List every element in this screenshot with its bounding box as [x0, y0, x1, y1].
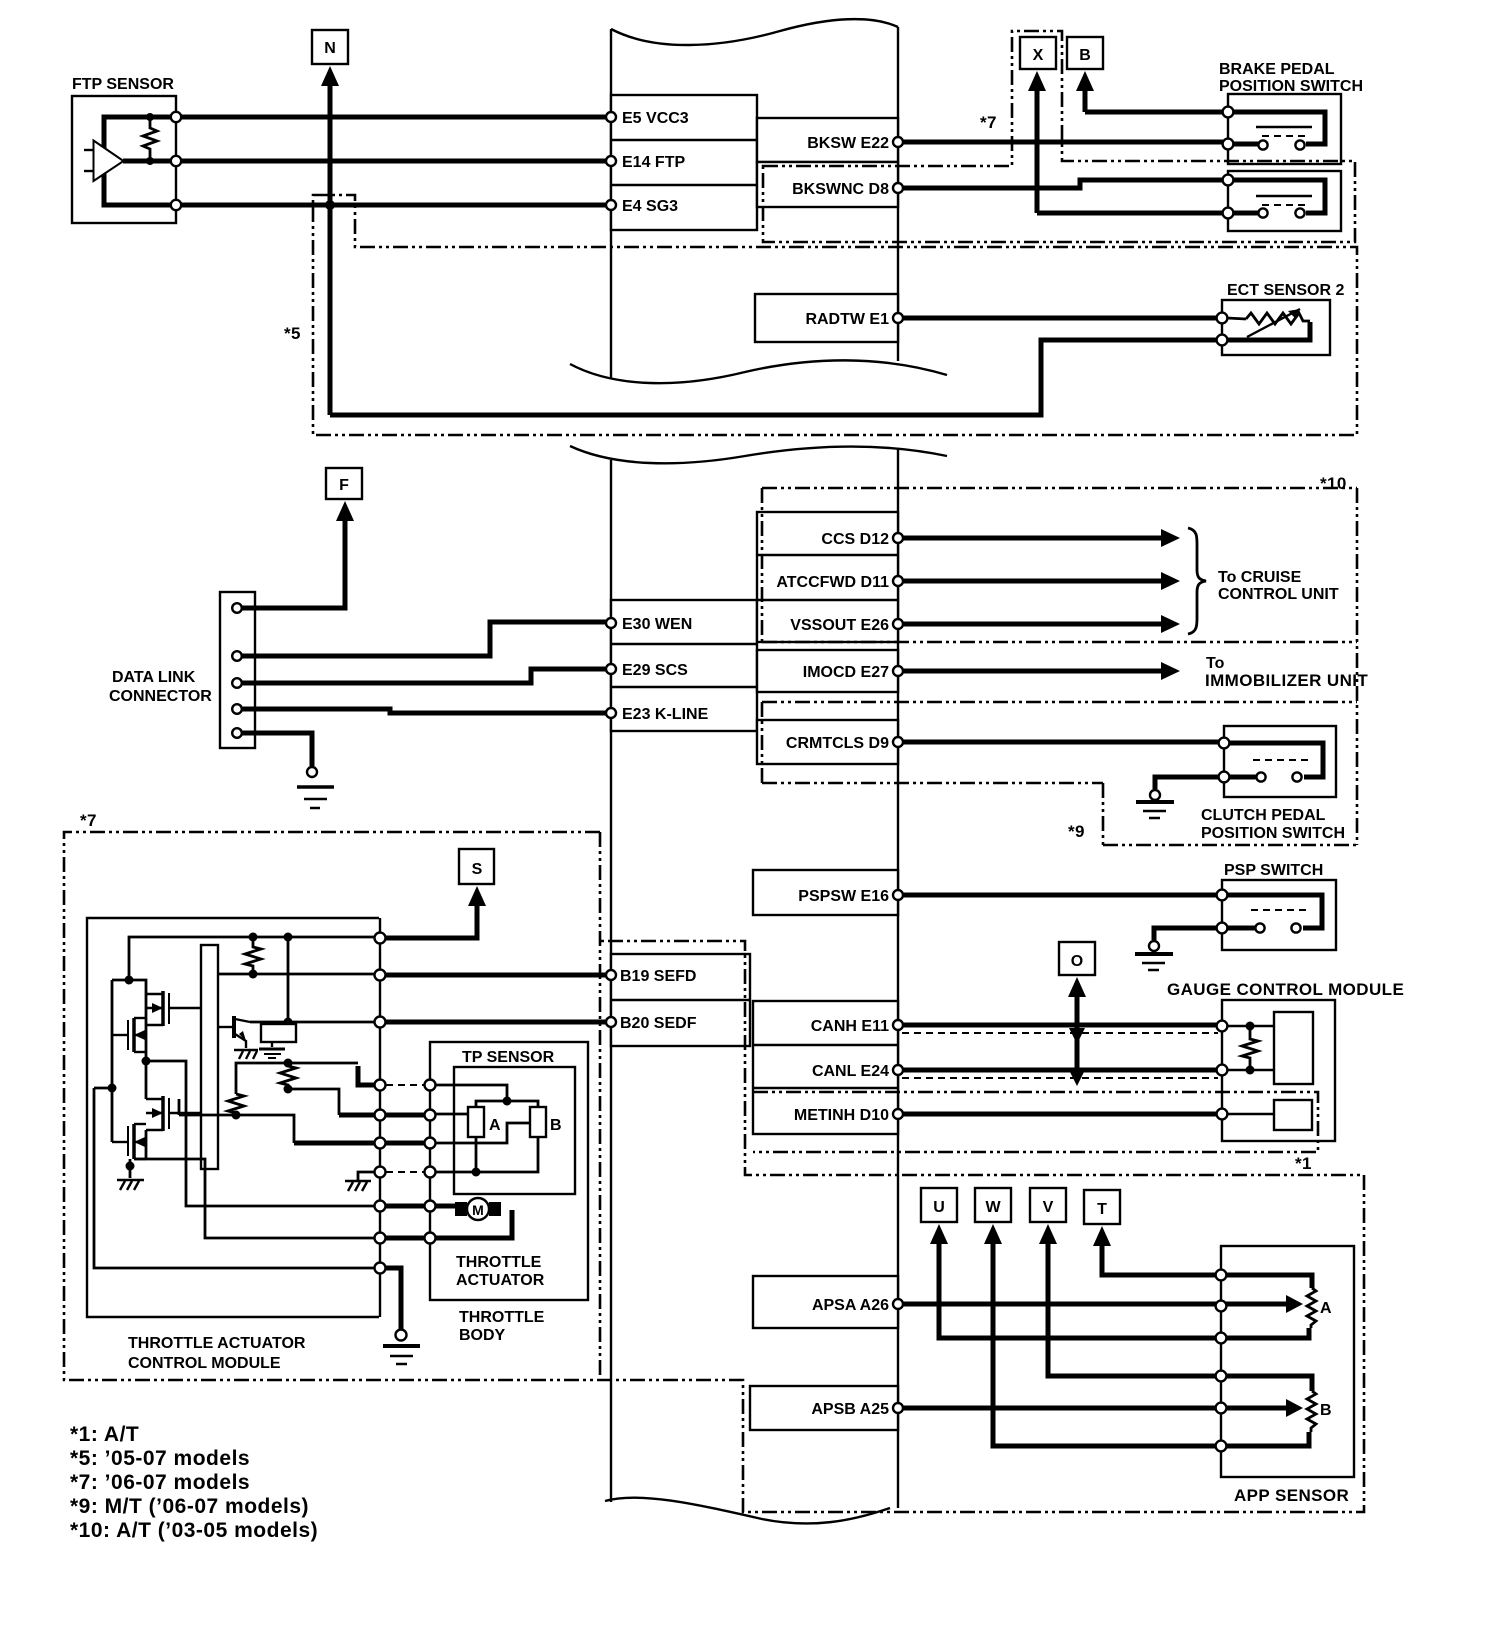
svg-text:To: To [1206, 655, 1225, 672]
svg-text:*9: *9 [1068, 822, 1085, 841]
svg-text:B19 SEFD: B19 SEFD [620, 968, 696, 985]
svg-text:F: F [339, 477, 349, 494]
svg-text:*5: ’05-07 models: *5: ’05-07 models [70, 1447, 250, 1470]
svg-text:*7: *7 [80, 811, 97, 830]
svg-text:*10: *10 [1320, 474, 1347, 493]
svg-text:BRAKE PEDAL: BRAKE PEDAL [1219, 61, 1335, 78]
svg-text:IMMOBILIZER UNIT: IMMOBILIZER UNIT [1205, 671, 1368, 690]
svg-text:CLUTCH PEDAL: CLUTCH PEDAL [1201, 807, 1326, 824]
svg-text:N: N [324, 40, 336, 57]
svg-text:*5: *5 [284, 324, 301, 343]
svg-text:M: M [472, 1202, 484, 1218]
svg-text:U: U [933, 1199, 945, 1216]
svg-text:B: B [550, 1117, 562, 1134]
svg-text:ACTUATOR: ACTUATOR [456, 1272, 545, 1289]
svg-text:PSPSW E16: PSPSW E16 [798, 888, 889, 905]
svg-text:APP SENSOR: APP SENSOR [1234, 1486, 1349, 1505]
svg-text:BKSW E22: BKSW E22 [807, 135, 889, 152]
svg-text:*7: *7 [980, 113, 997, 132]
svg-text:CONTROL MODULE: CONTROL MODULE [128, 1355, 281, 1372]
svg-text:THROTTLE: THROTTLE [459, 1309, 545, 1326]
svg-text:*1: *1 [1295, 1154, 1312, 1173]
svg-text:THROTTLE ACTUATOR: THROTTLE ACTUATOR [128, 1335, 306, 1352]
svg-text:B: B [1079, 47, 1091, 64]
svg-text:CONNECTOR: CONNECTOR [109, 688, 212, 705]
svg-text:V: V [1043, 1199, 1054, 1216]
svg-text:ECT SENSOR 2: ECT SENSOR 2 [1227, 282, 1344, 299]
svg-text:*7: ’06-07 models: *7: ’06-07 models [70, 1471, 250, 1494]
svg-text:POSITION SWITCH: POSITION SWITCH [1219, 78, 1363, 95]
svg-text:E30 WEN: E30 WEN [622, 616, 692, 633]
svg-text:E4 SG3: E4 SG3 [622, 198, 678, 215]
svg-text:O: O [1071, 953, 1083, 970]
svg-text:X: X [1033, 47, 1044, 64]
svg-text:CANH E11: CANH E11 [811, 1018, 889, 1035]
svg-text:TP SENSOR: TP SENSOR [462, 1049, 555, 1066]
svg-text:*10: A/T (’03-05 models): *10: A/T (’03-05 models) [70, 1519, 318, 1542]
svg-text:A: A [489, 1117, 501, 1134]
svg-text:THROTTLE: THROTTLE [456, 1254, 542, 1271]
svg-text:PSP SWITCH: PSP SWITCH [1224, 862, 1323, 879]
svg-text:CONTROL UNIT: CONTROL UNIT [1218, 586, 1339, 603]
svg-text:*1: A/T: *1: A/T [70, 1423, 139, 1446]
svg-text:VSSOUT E26: VSSOUT E26 [790, 617, 889, 634]
svg-text:IMOCD E27: IMOCD E27 [803, 664, 889, 681]
svg-text:BKSWNC D8: BKSWNC D8 [792, 181, 889, 198]
svg-text:ATCCFWD D11: ATCCFWD D11 [776, 574, 889, 591]
svg-text:T: T [1097, 1201, 1107, 1218]
svg-text:E5 VCC3: E5 VCC3 [622, 110, 689, 127]
svg-text:E14 FTP: E14 FTP [622, 154, 685, 171]
svg-text:RADTW E1: RADTW E1 [805, 311, 889, 328]
svg-text:E29 SCS: E29 SCS [622, 662, 688, 679]
svg-text:POSITION SWITCH: POSITION SWITCH [1201, 825, 1345, 842]
svg-text:CCS D12: CCS D12 [821, 531, 889, 548]
svg-text:APSA A26: APSA A26 [812, 1297, 889, 1314]
svg-text:B20 SEDF: B20 SEDF [620, 1015, 697, 1032]
svg-text:BODY: BODY [459, 1327, 506, 1344]
svg-text:A: A [1320, 1300, 1332, 1317]
svg-text:GAUGE CONTROL MODULE: GAUGE CONTROL MODULE [1167, 980, 1404, 999]
svg-text:S: S [472, 861, 483, 878]
svg-text:W: W [985, 1199, 1001, 1216]
svg-text:METINH D10: METINH D10 [794, 1107, 889, 1124]
svg-text:*9: M/T (’06-07 models): *9: M/T (’06-07 models) [70, 1495, 309, 1518]
svg-text:B: B [1320, 1402, 1332, 1419]
svg-text:CANL E24: CANL E24 [812, 1063, 889, 1080]
svg-text:DATA LINK: DATA LINK [112, 669, 196, 686]
svg-text:FTP SENSOR: FTP SENSOR [72, 76, 174, 93]
svg-text:To CRUISE: To CRUISE [1218, 569, 1302, 586]
svg-text:E23 K-LINE: E23 K-LINE [622, 706, 709, 723]
svg-text:CRMTCLS D9: CRMTCLS D9 [786, 735, 889, 752]
svg-text:APSB A25: APSB A25 [811, 1401, 889, 1418]
